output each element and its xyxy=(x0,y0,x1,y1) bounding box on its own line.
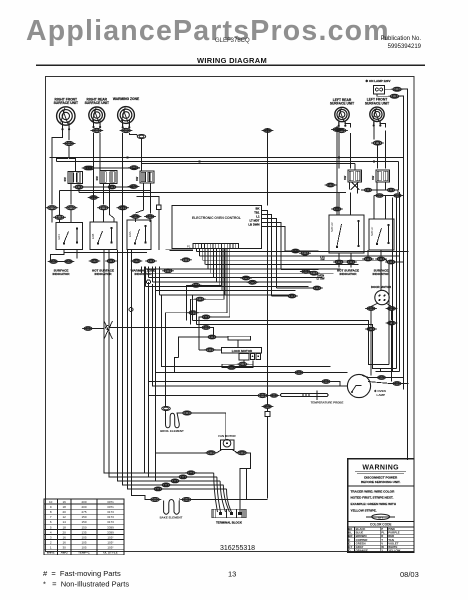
wire: bake coil stub xyxy=(178,498,180,501)
surface unit: left front (heating element) xyxy=(365,98,389,127)
wire: right front unit right lead xyxy=(68,121,70,140)
svg-text:BAKE ELEMENT: BAKE ELEMENT xyxy=(160,515,183,519)
connector: right link oval xyxy=(385,260,397,264)
connector: warming lead xyxy=(120,128,133,132)
connector: sw3 drop ovals xyxy=(130,215,142,219)
svg-text:20: 20 xyxy=(63,510,67,514)
wire bus: L2 distribution xyxy=(57,161,399,163)
svg-text:GLEF378CQ: GLEF378CQ xyxy=(215,38,250,44)
connector: right cluster links xyxy=(362,188,373,192)
connector: oval on bus at 90 xyxy=(86,166,94,170)
wire: mid run 2 xyxy=(156,372,296,374)
svg-text:3071: 3071 xyxy=(107,500,114,504)
wire: warming zone leads xyxy=(122,120,124,127)
wire: bottom feed 5 xyxy=(128,250,227,489)
connector: ladder oval b xyxy=(247,280,259,284)
svg-text:AppliancePartsPros.com: AppliancePartsPros.com xyxy=(26,15,390,47)
wire: link bus y163.5 xyxy=(142,163,356,165)
svg-text:DOOR MOTOR: DOOR MOTOR xyxy=(371,285,392,289)
connector: left rear lead xyxy=(335,128,348,132)
switch box warming zone control xyxy=(127,220,151,250)
connector: sw1 bottom oval xyxy=(73,185,85,189)
wire: motor circuit drops xyxy=(370,331,372,376)
svg-text:3399: 3399 xyxy=(107,525,114,529)
temperature probe xyxy=(281,390,344,404)
wire: box E drops xyxy=(367,250,369,257)
wire: left front unit leads xyxy=(373,121,375,140)
wire: harness drop A with connector xyxy=(187,249,222,321)
wire: EOC output BK xyxy=(261,211,267,405)
wire: link bus y192.5 xyxy=(79,192,346,194)
svg-text:ORANGE: ORANGE xyxy=(356,549,368,553)
svg-text:ELECTRONIC OVEN CONTROL: ELECTRONIC OVEN CONTROL xyxy=(192,216,241,220)
wire: bake-right riser xyxy=(246,469,248,500)
connector: lock motor lead 3 xyxy=(204,348,216,352)
electronic oven control EOC xyxy=(172,206,261,249)
connector: fan lead left xyxy=(205,451,218,455)
wire: fan left feed xyxy=(156,452,207,454)
connector: motor circuit lower ovals xyxy=(365,327,377,331)
wire: EOC output LT MDT xyxy=(261,223,281,270)
svg-text:16: 16 xyxy=(63,535,67,539)
svg-text:150: 150 xyxy=(81,520,86,524)
wire: broil feed right to fan xyxy=(177,412,183,414)
wire: right front unit left lead to connector xyxy=(52,121,63,205)
svg-text:105°: 105° xyxy=(107,535,114,539)
svg-text:# = Fast-moving Parts: # = Fast-moving Parts xyxy=(43,569,121,578)
wire: broil feed up xyxy=(165,397,167,407)
wire: probe feed long run xyxy=(149,395,259,397)
connector: ladder oval g xyxy=(311,286,323,290)
connector: bus 337 mid xyxy=(325,183,337,187)
svg-text:TRACER WIRE: WIRE COLOR: TRACER WIRE: WIRE COLOR xyxy=(351,489,396,493)
svg-text:316255318: 316255318 xyxy=(220,545,255,552)
connector: ladder oval h xyxy=(162,269,174,273)
svg-text:12: 12 xyxy=(63,515,67,519)
indicator: surface indicator lamp pair xyxy=(48,260,60,264)
wire: bottom feed 1 xyxy=(104,250,214,473)
connector: run2 oval xyxy=(293,371,305,375)
wire: EOC out L1 bend right xyxy=(277,287,314,289)
connector: lamp right upper xyxy=(376,376,388,380)
wire gauge table xyxy=(44,499,124,555)
wire bus: L1 distribution xyxy=(50,157,404,159)
wire: harness drop B with connector xyxy=(191,249,225,325)
oven lamp xyxy=(347,374,385,397)
wire: rf lead into infinite switch xyxy=(69,159,75,172)
svg-text:✱ ON LAMP 120V: ✱ ON LAMP 120V xyxy=(366,79,391,83)
svg-text:150: 150 xyxy=(81,515,86,519)
wire: lock feeds from left xyxy=(198,332,200,350)
surface unit: right front (heating element) xyxy=(54,97,78,130)
connector: rr mid oval xyxy=(88,196,100,200)
connector: bake lead left xyxy=(149,498,162,502)
infinite switch right front surface xyxy=(63,172,83,184)
connector: probe lower oval xyxy=(262,405,274,409)
connector: bus 337 top xyxy=(331,128,343,132)
svg-text:UL STYLE: UL STYLE xyxy=(103,551,117,555)
terminal block xyxy=(212,509,246,524)
svg-text:200: 200 xyxy=(81,500,86,504)
connector: sw1 right top oval xyxy=(82,166,94,170)
connector: lock motor lead 1 xyxy=(200,326,212,330)
main diagram frame xyxy=(45,77,414,552)
connector: motor lead right xyxy=(386,307,398,311)
svg-text:SW: SW xyxy=(320,258,325,262)
indicator: ON LAMP 120V xyxy=(366,79,391,94)
EOC connector pin strip P1 xyxy=(187,244,239,249)
wire: crossover under left rear switch xyxy=(352,182,360,190)
wire: twist to lock run xyxy=(109,327,201,329)
connector: ON lamp lead lower xyxy=(388,94,400,98)
wire: lock lower corner joins xyxy=(175,358,179,373)
connector: box D drop ovals xyxy=(333,260,345,264)
indicator: hot surface indicator lamp pair xyxy=(89,259,101,263)
connector: ON lamp lead upper xyxy=(391,87,403,91)
wire: L2 bus drop at right xyxy=(398,162,400,191)
svg-text:EXAMPLE: GREEN WIRE WITH: EXAMPLE: GREEN WIRE WITH xyxy=(351,502,397,506)
wire: nested route C xyxy=(376,371,400,373)
switch box right front surface switch xyxy=(56,223,83,250)
svg-text:SW LF: SW LF xyxy=(370,227,374,236)
svg-text:13: 13 xyxy=(228,570,236,579)
svg-text:YELLOW STRIPE.: YELLOW STRIPE. xyxy=(351,509,377,513)
vertical bus x=337 xyxy=(336,126,338,215)
junction: ring node b xyxy=(129,308,133,312)
svg-text:E04: E04 xyxy=(57,234,61,240)
svg-text:P1: P1 xyxy=(187,245,191,249)
svg-text:YELLOW: YELLOW xyxy=(388,549,400,553)
svg-text:275: 275 xyxy=(81,510,86,514)
svg-text:30: 30 xyxy=(63,546,67,550)
connector: left front lead xyxy=(371,141,384,145)
svg-text:SW: SW xyxy=(343,175,347,180)
wire: right switch drops xyxy=(349,182,351,190)
connector: sw1 mid oval xyxy=(53,215,66,219)
svg-text:14: 14 xyxy=(63,520,67,524)
svg-text:16: 16 xyxy=(63,540,67,544)
connector: sw2 drop oval xyxy=(97,206,110,210)
junction: bus taps xyxy=(127,156,129,158)
connector: fan lead right xyxy=(236,451,249,455)
connector: wz jog oval xyxy=(137,135,145,139)
connector: rf right lead xyxy=(63,141,76,145)
svg-text:3173: 3173 xyxy=(107,510,114,514)
svg-text:INDICATOR: INDICATOR xyxy=(95,272,113,276)
wire: ON lamp to right bus xyxy=(385,88,393,90)
svg-text:SW LR: SW LR xyxy=(330,222,334,232)
wire: motor feed xyxy=(380,261,382,290)
svg-text:NOTED FIRST, STRIPE NEXT.: NOTED FIRST, STRIPE NEXT. xyxy=(351,496,394,500)
svg-text:18: 18 xyxy=(63,505,67,509)
wire: box A bottom leads xyxy=(51,250,65,262)
svg-text:105: 105 xyxy=(81,535,86,539)
connector: bottom feed oval 1 xyxy=(185,471,197,475)
infinite switch left front surface xyxy=(371,170,390,182)
wire: long verticals down to bottom feeds xyxy=(144,269,146,473)
connector: lamp right lower xyxy=(391,382,403,386)
wire: rf left lead to switch box xyxy=(51,210,53,223)
svg-text:LB DWN: LB DWN xyxy=(248,222,259,226)
svg-text:SW: SW xyxy=(135,176,139,181)
indicator: warming zone indicator lamp pair xyxy=(131,259,143,263)
wire: EOC output TB1 xyxy=(261,215,271,297)
wire: mid run 3 to oven lamp xyxy=(153,284,348,386)
wire: link bus y168 xyxy=(86,167,140,169)
svg-text:* = Non-Illustrated Parts: * = Non-Illustrated Parts xyxy=(43,580,129,589)
connector: rf left lead xyxy=(46,206,59,210)
wire ladder: EOC harness to components xyxy=(142,252,409,296)
wire: probe node drops xyxy=(267,409,269,412)
connector: bottom feed oval 4 xyxy=(160,483,172,487)
wire: link bus y190.6 xyxy=(60,190,152,192)
wire: harness top-left pair xyxy=(166,248,194,250)
svg-text:BROIL ELEMENT: BROIL ELEMENT xyxy=(160,429,184,433)
svg-text:3173: 3173 xyxy=(107,515,114,519)
connector: ladder oval a xyxy=(240,276,252,280)
svg-text:WIRE: WIRE xyxy=(47,551,55,555)
wire: bake feed right xyxy=(191,499,247,501)
wire: fan motor wiring xyxy=(217,450,223,453)
connector: motor lead left xyxy=(365,307,377,311)
vertical bus x=267.5 xyxy=(267,128,269,206)
wire: ladder left curls up to indicator lamps xyxy=(142,267,160,296)
svg-text:G/Y: G/Y xyxy=(378,515,383,519)
wire: harness drop D with connector xyxy=(199,249,230,332)
wire: right box feeds xyxy=(338,193,340,216)
infinite switch warming zone xyxy=(135,171,154,183)
junction node square xyxy=(157,205,162,210)
wire: bottom feed 2 xyxy=(109,250,217,477)
svg-text:WARMING ZONE: WARMING ZONE xyxy=(113,97,140,101)
connector: box E drop ovals xyxy=(362,257,374,261)
junction: probe node square xyxy=(265,411,270,416)
connector: lock motor lead 2 xyxy=(206,335,218,339)
wire: twisted pair crossing xyxy=(104,321,113,339)
svg-text:INDICATOR: INDICATOR xyxy=(53,272,71,276)
svg-text:WARNING: WARNING xyxy=(362,465,399,472)
surface unit: warming zone (heating element) xyxy=(113,97,140,128)
wire: right rear unit leads xyxy=(93,120,95,127)
wire: rr left lead down to box B xyxy=(93,133,95,222)
switch box right rear surface switch xyxy=(90,222,117,250)
svg-text:SURFACE UNIT: SURFACE UNIT xyxy=(365,101,389,105)
wire: box D drops xyxy=(338,253,340,260)
wire: EOC out LB DWN to light switch xyxy=(285,250,319,252)
svg-text:3399: 3399 xyxy=(107,530,114,534)
lock motor xyxy=(221,347,261,353)
svg-text:SW: SW xyxy=(63,177,67,182)
wire: nested route B xyxy=(197,325,397,369)
svg-text:LAMP: LAMP xyxy=(377,393,386,397)
svg-text:16: 16 xyxy=(63,500,67,504)
junction: ring node c xyxy=(106,326,110,330)
svg-text:SURFACE UNIT: SURFACE UNIT xyxy=(54,101,78,105)
wire: nested route A xyxy=(193,321,390,365)
svg-text:Y: Y xyxy=(381,549,383,553)
svg-text:TEMP°C: TEMP°C xyxy=(78,551,91,555)
svg-text:E0A: E0A xyxy=(128,231,132,237)
infinite switch right rear surface xyxy=(95,171,117,184)
motor: door lock / convection motor xyxy=(371,285,392,304)
svg-text:AWG: AWG xyxy=(61,551,69,555)
connector: ladder oval pair low xyxy=(286,294,298,298)
wire: fan right to corner route down xyxy=(240,453,251,512)
svg-text:105: 105 xyxy=(81,546,86,550)
warning box xyxy=(348,459,414,553)
wire: switch2 bottom leads xyxy=(103,184,105,205)
wire: wz right lead to switch 3 xyxy=(129,133,136,135)
switch box left front surface switch xyxy=(369,219,394,250)
svg-text:200: 200 xyxy=(81,505,86,509)
svg-text:Publication No.: Publication No. xyxy=(381,36,422,42)
wire: EOC out TB1 bend right xyxy=(272,295,298,297)
wire: lamp lower lead xyxy=(377,94,390,96)
connector: ladder oval i xyxy=(180,258,192,262)
lock motor switch contacts xyxy=(239,353,249,360)
svg-text:20: 20 xyxy=(63,530,67,534)
connector: sw3 bottom oval xyxy=(128,185,140,189)
wire: nested route E down to bottom xyxy=(192,295,194,321)
junction: ring node a xyxy=(147,280,151,284)
svg-text:10: 10 xyxy=(49,500,53,504)
connector: lock cam ovals xyxy=(226,366,238,370)
wire: left rear unit leads xyxy=(338,121,340,128)
connector: probe lead inner xyxy=(269,394,280,398)
svg-text:WIRING DIAGRAM: WIRING DIAGRAM xyxy=(197,56,267,65)
wire: bake feed left xyxy=(132,250,151,500)
connector: probe lead outer xyxy=(256,393,269,397)
broil element xyxy=(160,413,184,433)
surface unit: left rear (heating element) xyxy=(330,98,354,127)
svg-text:LOCK MOTOR: LOCK MOTOR xyxy=(232,349,253,353)
wire: mid run 1 xyxy=(162,295,331,367)
connector: broil lead right xyxy=(181,411,194,415)
switch box left rear surface switch xyxy=(329,215,364,253)
wire: right nested verticals from switch links xyxy=(392,198,394,372)
wire: link to right bus xyxy=(395,261,404,263)
svg-text:150: 150 xyxy=(81,525,86,529)
wire: motor leads xyxy=(371,303,378,307)
svg-text:105°: 105° xyxy=(107,540,114,544)
wire: mid run 4 xyxy=(149,381,323,383)
connector: rr leads xyxy=(90,128,103,132)
wire: rr right lead into switch 2 xyxy=(99,133,101,171)
svg-text:INDICATOR: INDICATOR xyxy=(340,272,358,276)
svg-text:5995394219: 5995394219 xyxy=(388,44,422,50)
svg-text:TERMINAL BLOCK: TERMINAL BLOCK xyxy=(216,520,243,524)
wire: node links xyxy=(158,210,160,250)
wire: lock lead1 to cam xyxy=(210,328,214,338)
svg-text:SURFACE UNIT: SURFACE UNIT xyxy=(330,102,354,106)
bake element xyxy=(160,500,183,520)
fan motor xyxy=(218,434,236,450)
wire: EOC output L1 xyxy=(261,219,276,289)
connector: lt sw ovals xyxy=(290,249,302,253)
svg-text:SURFACE UNIT: SURFACE UNIT xyxy=(85,101,109,105)
svg-text:135: 135 xyxy=(81,530,86,534)
infinite switch left rear surface xyxy=(343,170,362,182)
connector: sw3 left bus oval xyxy=(128,166,140,170)
connector: bus 337 lower xyxy=(331,207,343,211)
connector: bottom feed oval 2 xyxy=(177,475,189,479)
wire: nested route D xyxy=(381,369,393,372)
svg-text:3173: 3173 xyxy=(107,520,114,524)
wire: box bottom bus xyxy=(64,252,147,254)
surface unit: right rear (heating element) xyxy=(85,98,109,129)
connector: bottom feed oval 3 xyxy=(169,479,181,483)
wire: bottom feed 4 xyxy=(123,250,224,485)
wire: bus 163 drop into left rear switch xyxy=(354,164,356,171)
connector: warming drop oval xyxy=(117,206,129,210)
svg-text:3071: 3071 xyxy=(107,505,114,509)
connector: lamp feed oval xyxy=(320,380,332,384)
wire: harness drop C with connector xyxy=(166,249,227,313)
wire: link bus y187 xyxy=(79,186,134,188)
connector: sw1 drop oval xyxy=(65,206,78,210)
connector: bake lead right xyxy=(180,498,193,502)
connector: twist oval xyxy=(82,327,94,331)
wire: switch drops to control boxes xyxy=(70,184,72,205)
connector: sw2 bottom oval xyxy=(106,185,118,189)
connector: broil lead upper xyxy=(162,407,171,411)
wire: lock bottom wiring xyxy=(243,361,245,362)
svg-text:BEFORE SERVICING UNIT.: BEFORE SERVICING UNIT. xyxy=(361,480,400,484)
connector: sw1 bottom right oval xyxy=(78,189,80,193)
svg-text:TEMPERATURE PROBE: TEMPERATURE PROBE xyxy=(311,400,344,404)
wire: lamp wiring right xyxy=(362,376,378,378)
lock motor cam xyxy=(228,336,251,340)
svg-text:FAN MOTOR: FAN MOTOR xyxy=(218,434,236,438)
wire: broil feed riser xyxy=(165,313,167,397)
svg-text:105°: 105° xyxy=(107,546,114,550)
svg-text:LT SW: LT SW xyxy=(317,276,325,280)
svg-text:18: 18 xyxy=(63,525,67,529)
wire: sw3 drops xyxy=(136,183,144,213)
svg-text:SW: SW xyxy=(371,175,375,180)
wire: EOC output LB DWN xyxy=(261,227,285,252)
svg-text:08/03: 08/03 xyxy=(400,570,419,579)
connector: bus 267 top xyxy=(262,129,274,133)
wire: wz left lead long drop xyxy=(122,133,124,485)
svg-text:E08: E08 xyxy=(91,233,95,239)
svg-text:105: 105 xyxy=(81,540,86,544)
color code table xyxy=(348,527,414,552)
svg-text:SW: SW xyxy=(95,176,99,181)
wire: pin strip drops onto ladder xyxy=(142,249,226,296)
wire: EOC out LT MDT to oven light switch xyxy=(281,269,319,271)
wire: bottom feed 3 xyxy=(118,250,221,481)
